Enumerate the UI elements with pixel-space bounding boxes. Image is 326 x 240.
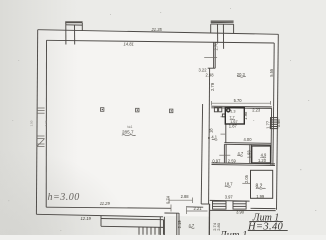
room 8.2 box — [251, 170, 273, 198]
ladder window on right wall — [271, 118, 278, 129]
svg-text:2.70: 2.70 — [213, 42, 218, 51]
hall wall lower single continuation — [208, 204, 210, 235]
svg-text:21.35: 21.35 — [151, 27, 163, 32]
wall: left inner — [45, 40, 47, 207]
svg-text:4,7: 4,7 — [189, 223, 195, 228]
porch right wall — [163, 220, 165, 235]
small wall segment above bottom annex — [164, 212, 179, 214]
svg-text:4,7: 4,7 — [238, 151, 244, 156]
stair ladder 1 — [213, 201, 227, 209]
porch left wall — [100, 216, 102, 227]
room 4.9 box — [252, 146, 271, 163]
small ticks left of boiler room — [221, 116, 226, 118]
column 1 — [101, 108, 104, 112]
svg-text:285,7: 285,7 — [122, 130, 134, 135]
svg-text:20.3: 20.3 — [237, 72, 246, 77]
annex bottom outer lines — [251, 207, 276, 209]
svg-text:1.87: 1.87 — [229, 123, 238, 128]
svg-text:1.20: 1.20 — [258, 158, 267, 163]
tick for 2.05 at room 8.2 — [242, 182, 250, 184]
narrow room right wall double below y144 — [223, 144, 225, 163]
svg-text:№1: №1 — [127, 125, 132, 129]
jog connector — [208, 67, 216, 69]
porch bottom line — [101, 226, 164, 227]
dimension tick for 2.70 — [204, 57, 217, 59]
svg-text:4,1: 4,1 — [211, 135, 217, 140]
svg-text:14.81: 14.81 — [124, 41, 134, 46]
chimney 2 box sides — [210, 24, 212, 33]
boiler room left wall extension — [225, 124, 227, 143]
bottom annex interior wall double — [176, 213, 178, 235]
svg-text:5.70: 5.70 — [234, 98, 243, 103]
svg-text:1.32: 1.32 — [44, 120, 48, 126]
column 2 — [136, 108, 139, 112]
svg-text:12.19: 12.19 — [81, 216, 92, 221]
svg-text:1.77: 1.77 — [265, 120, 270, 129]
annex wall y163 double — [212, 163, 276, 164]
bottom annex left wall double — [159, 217, 161, 235]
svg-text:3.90: 3.90 — [236, 209, 245, 214]
wall: left outer — [36, 30, 37, 215]
svg-text:2.21: 2.21 — [194, 206, 203, 211]
svg-text:18,7: 18,7 — [225, 182, 234, 187]
annex mid wall y142 double — [224, 142, 271, 145]
boiler disk — [226, 108, 231, 113]
svg-text:1.99: 1.99 — [256, 194, 265, 199]
svg-text:1.3: 1.3 — [230, 110, 235, 114]
hall right wall upper double segment — [213, 42, 215, 68]
vertical wall x250 double — [249, 144, 251, 163]
svg-text:5.55: 5.55 — [269, 68, 274, 77]
chimney 2 cap bar — [211, 21, 234, 22]
svg-text:11.29: 11.29 — [100, 201, 111, 206]
svg-text:Лит 1: Лит 1 — [219, 230, 248, 235]
small bracket box — [222, 114, 225, 117]
top-right room bottom wall double — [211, 105, 271, 108]
svg-text:0.74: 0.74 — [166, 195, 171, 204]
hall right wall line B — [201, 104, 202, 204]
building interior fill — [36, 30, 278, 217]
window 2 cross lines — [37, 135, 45, 137]
door symbol rects in small room — [214, 107, 217, 112]
tick crossing wall at y155 — [219, 154, 230, 156]
tick at end of bottom inner wall — [170, 205, 172, 212]
hall right wall line A — [209, 68, 210, 204]
svg-text:1.98: 1.98 — [243, 111, 248, 120]
porch stair hatch — [138, 227, 140, 235]
stairs top wall — [210, 199, 250, 202]
stair ladder 2 — [233, 201, 246, 209]
svg-text:3.97: 3.97 — [225, 195, 234, 200]
label squiggle underlines — [122, 76, 266, 228]
window 1 left wall cross lines — [37, 108, 45, 147]
svg-text:0.97: 0.97 — [212, 158, 221, 163]
svg-text:h=3.00: h=3.00 — [48, 192, 80, 203]
wall end cap — [201, 203, 210, 205]
svg-text:2.79: 2.79 — [210, 82, 215, 91]
wall: top inner — [47, 40, 275, 43]
wall: right outer — [277, 34, 279, 210]
svg-text:2.19: 2.19 — [177, 220, 182, 229]
wall: right inner upper — [273, 43, 276, 107]
dim line 2.88 — [169, 199, 193, 201]
chimney 1 flue line — [74, 25, 76, 45]
svg-text:►: ► — [208, 136, 212, 140]
svg-text:2.59: 2.59 — [228, 159, 237, 164]
dim line 2.21 — [187, 210, 208, 212]
chimney 1 box sides — [65, 23, 67, 45]
wall: right inner double lower — [272, 107, 275, 165]
svg-text:2.98: 2.98 — [206, 73, 215, 78]
wall: top outer — [38, 30, 279, 35]
dim line 5.70 with end ticks — [212, 102, 271, 104]
boiler room (dark box) — [225, 108, 244, 124]
svg-text:2.23: 2.23 — [252, 108, 261, 113]
wall: bottom inner — [46, 207, 171, 208]
svg-text:0.98: 0.98 — [276, 119, 281, 128]
svg-text:1.93: 1.93 — [246, 150, 251, 159]
svg-text:2.05: 2.05 — [244, 174, 249, 183]
svg-text:4,9: 4,9 — [261, 153, 267, 158]
svg-text:1.50: 1.50 — [30, 120, 34, 126]
svg-text:4.00: 4.00 — [244, 137, 253, 142]
chimney 2 flue lines — [217, 24, 219, 43]
chimney 1 cap bar — [65, 21, 82, 23]
wall: bottom outer — [36, 214, 163, 217]
porch top line — [101, 219, 164, 220]
column 3 — [170, 109, 173, 113]
svg-text:2.88: 2.88 — [181, 194, 190, 199]
svg-text:18: 18 — [208, 128, 213, 133]
inner bottom extension segment — [186, 206, 203, 208]
